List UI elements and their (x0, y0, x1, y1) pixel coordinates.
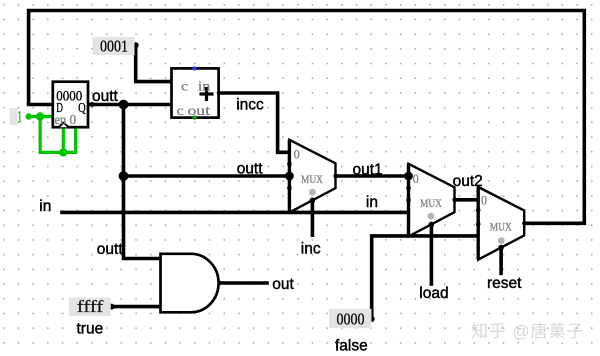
svg-text:0: 0 (481, 193, 487, 208)
svg-text:outt: outt (92, 88, 119, 105)
svg-text:out1: out1 (353, 162, 383, 179)
svg-text:load: load (419, 285, 448, 302)
svg-text:out: out (272, 276, 294, 293)
svg-text:outt: outt (97, 241, 124, 258)
svg-text:inc: inc (301, 240, 321, 257)
svg-text:true: true (77, 321, 104, 338)
svg-text:0: 0 (294, 147, 300, 162)
svg-text:out2: out2 (453, 173, 483, 190)
svg-text:en: en (55, 112, 67, 127)
svg-text:知乎 @唐菓子: 知乎 @唐菓子 (471, 321, 584, 341)
svg-text:in: in (198, 78, 211, 93)
svg-text:c: c (177, 103, 184, 118)
svg-text:Q: Q (78, 101, 86, 116)
svg-text:MUX: MUX (420, 198, 443, 210)
svg-text:0001: 0001 (100, 37, 128, 56)
svg-text:0000: 0000 (337, 309, 365, 328)
svg-text:0: 0 (413, 171, 419, 186)
svg-text:MUX: MUX (490, 221, 513, 233)
svg-text:in: in (366, 194, 378, 211)
svg-text:out: out (188, 103, 211, 118)
svg-text:incc: incc (236, 97, 264, 114)
svg-text:0: 0 (70, 112, 77, 127)
svg-text:c: c (181, 78, 188, 93)
svg-text:1: 1 (17, 107, 22, 126)
svg-text:reset: reset (487, 275, 522, 292)
svg-text:outt: outt (237, 160, 264, 177)
svg-text:false: false (335, 338, 368, 355)
svg-text:ffff: ffff (77, 297, 104, 316)
svg-text:MUX: MUX (301, 174, 324, 186)
svg-text:in: in (39, 198, 51, 215)
